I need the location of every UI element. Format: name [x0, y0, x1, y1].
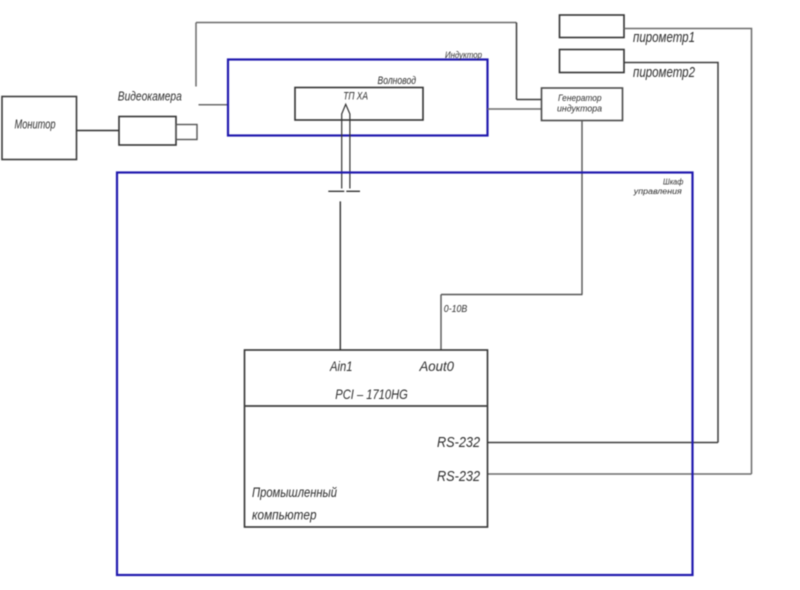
svg-text:0-10В: 0-10В	[444, 303, 468, 315]
wire RS-232 upper	[488, 442, 719, 444]
PCI card divider line	[245, 405, 488, 407]
svg-text:RS-232: RS-232	[437, 434, 481, 451]
inductor blue box	[228, 60, 488, 136]
svg-text:пирометр2: пирометр2	[633, 65, 695, 81]
svg-text:PCI – 1710HG: PCI – 1710HG	[335, 386, 408, 402]
svg-text:Генератор: Генератор	[558, 93, 602, 104]
video camera body	[119, 117, 176, 146]
industrial computer box	[245, 350, 488, 527]
wire inductor to generator	[488, 108, 542, 110]
wire pyrometer2 to RS-232	[624, 63, 718, 443]
svg-text:Аin1: Аin1	[329, 358, 352, 374]
wire top horizontal run	[196, 22, 517, 24]
wire down to generator	[516, 23, 518, 100]
monitor box	[2, 97, 77, 160]
wire into generator left side	[517, 99, 542, 101]
wire 0-10V horizontal	[441, 294, 583, 296]
svg-text:Аout0: Аout0	[419, 358, 455, 374]
wire pyrometer1 to RS-232	[624, 29, 752, 475]
wire RS-232 lower	[488, 473, 752, 475]
svg-text:пирометр1: пирометр1	[633, 30, 695, 46]
thermocouple probe arrow	[342, 104, 350, 188]
control cabinet blue box	[117, 173, 693, 576]
pyrometer1 box	[560, 15, 625, 38]
svg-text:компьютер: компьютер	[252, 507, 317, 522]
svg-text:Промышленный: Промышленный	[252, 485, 337, 500]
wire generator down	[581, 121, 583, 295]
svg-text:индуктора: индуктора	[557, 104, 602, 115]
thermocouple junction dash right	[346, 190, 360, 192]
svg-text:Монитор: Монитор	[15, 117, 56, 132]
svg-text:RS-232: RS-232	[437, 468, 481, 485]
pyrometer2 box	[560, 50, 625, 73]
svg-text:управления: управления	[633, 186, 682, 196]
svg-text:ТП ХА: ТП ХА	[343, 90, 368, 102]
wire monitor to camera	[77, 130, 120, 132]
wire riser up from camera area	[195, 23, 197, 87]
svg-text:Видеокамера: Видеокамера	[118, 88, 182, 103]
wire stub camera area to inductor box	[199, 104, 229, 106]
generator box	[542, 88, 623, 121]
thermocouple junction dash left	[328, 190, 344, 192]
video camera lens	[176, 125, 197, 140]
wire 0-10V down to Aout0	[440, 295, 442, 351]
wire thermocouple to Ain1	[339, 201, 341, 350]
svg-text:Индуктор: Индуктор	[445, 50, 482, 60]
svg-text:Волновод: Волновод	[378, 75, 417, 87]
waveguide box	[295, 88, 423, 121]
